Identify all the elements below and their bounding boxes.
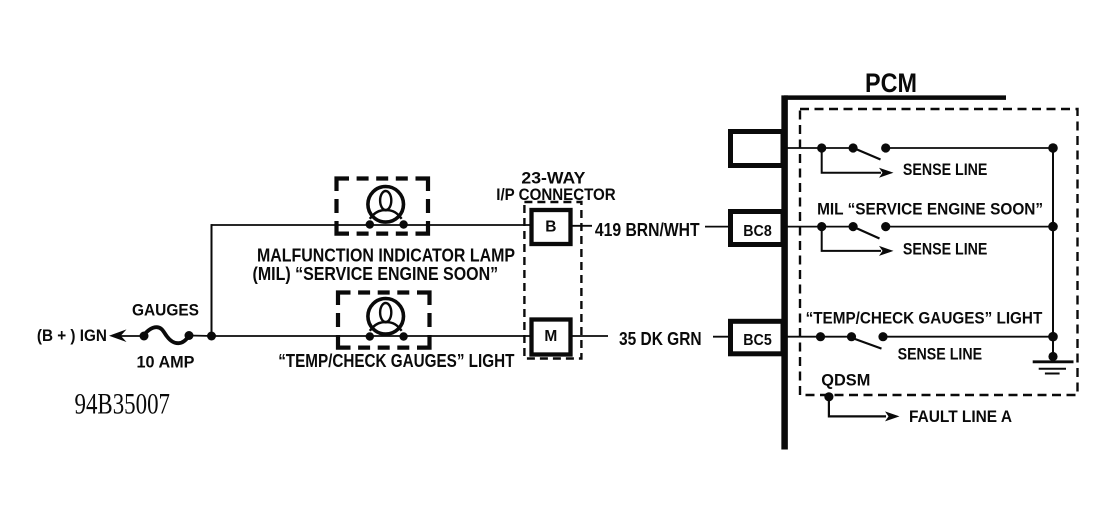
arrow FAULT LINE A	[829, 397, 886, 417]
svg-text:419 BRN/WHT: 419 BRN/WHT	[595, 220, 700, 240]
svg-text:(B + ) IGN: (B + ) IGN	[37, 326, 107, 345]
PCM internal dashed box	[800, 109, 1078, 395]
svg-text:MALFUNCTION INDICATOR LAMP: MALFUNCTION INDICATOR LAMP	[257, 245, 515, 265]
arrow to (B+) IGN	[113, 335, 145, 337]
lamp TEMP/CHECK GAUGES bulb	[366, 299, 408, 341]
node junction at feed	[207, 332, 216, 341]
svg-text:“TEMP/CHECK GAUGES” LIGHT: “TEMP/CHECK GAUGES” LIGHT	[806, 309, 1043, 328]
svg-text:MIL “SERVICE ENGINE SOON”: MIL “SERVICE ENGINE SOON”	[817, 200, 1043, 219]
switch row3	[816, 332, 825, 341]
svg-text:(MIL) “SERVICE ENGINE SOON”: (MIL) “SERVICE ENGINE SOON”	[253, 264, 499, 284]
node bus row1	[1048, 143, 1058, 153]
wire row2 into PCM	[783, 226, 853, 228]
terminal B	[532, 210, 571, 244]
wire row1 to bus	[886, 147, 1053, 149]
svg-text:QDSM: QDSM	[821, 371, 870, 390]
svg-text:BC5: BC5	[743, 332, 772, 349]
wire row1 into PCM	[783, 147, 853, 149]
switch row1	[817, 143, 826, 152]
connector BC5	[731, 321, 784, 354]
connector blank (top)	[731, 132, 784, 166]
fuse F GAUGES 10 AMP	[140, 332, 149, 341]
arrow SENSE LINE 2	[822, 229, 881, 251]
node QDSM	[824, 392, 833, 401]
lamp MIL bulb	[368, 187, 404, 223]
switch row2	[817, 222, 826, 231]
svg-text:FAULT LINE A: FAULT LINE A	[909, 407, 1012, 426]
wire 419 BRN/WHT right stub	[705, 226, 731, 228]
arrow SENSE LINE 1	[822, 150, 881, 173]
svg-text:“TEMP/CHECK GAUGES” LIGHT: “TEMP/CHECK GAUGES” LIGHT	[278, 351, 514, 371]
svg-text:SENSE LINE: SENSE LINE	[903, 240, 988, 259]
wire 35 DK GRN left stub	[570, 335, 609, 337]
svg-text:94B35007: 94B35007	[75, 388, 171, 421]
svg-text:SENSE LINE: SENSE LINE	[898, 345, 983, 364]
wire 419 BRN/WHT left stub	[570, 225, 593, 227]
svg-text:GAUGES: GAUGES	[132, 301, 199, 320]
PCM case left edge	[781, 95, 788, 449]
PCM case top edge	[784, 95, 1006, 100]
svg-text:PCM: PCM	[865, 68, 917, 98]
wire fuse to junction	[189, 335, 213, 338]
svg-text:B: B	[545, 219, 556, 236]
lamp TEMP/CHECK GAUGES (dashed box)	[338, 293, 430, 348]
connector 23-way I/P dashed outline	[524, 202, 581, 359]
node bus row2	[1048, 222, 1058, 232]
svg-text:M: M	[544, 328, 557, 345]
wire 35 DK GRN right stub	[713, 336, 731, 338]
svg-text:35 DK GRN: 35 DK GRN	[619, 329, 702, 349]
wire row3 into PCM	[783, 336, 852, 338]
wire row3 to bus	[883, 336, 1053, 338]
terminal M	[532, 320, 571, 355]
wire branch vertical	[211, 224, 213, 336]
svg-text:SENSE LINE: SENSE LINE	[903, 160, 988, 179]
connector BC8	[731, 212, 784, 245]
svg-text:10 AMP: 10 AMP	[137, 352, 195, 371]
wire right bus	[1052, 148, 1054, 357]
wire top run to terminal B	[212, 224, 532, 226]
node bus row3	[1048, 332, 1058, 342]
wire bottom run to terminal M	[212, 335, 532, 337]
ground	[1048, 352, 1057, 361]
lamp MIL (dashed box)	[337, 179, 429, 234]
wire row2 to bus	[886, 226, 1053, 228]
svg-text:BC8: BC8	[743, 223, 772, 240]
